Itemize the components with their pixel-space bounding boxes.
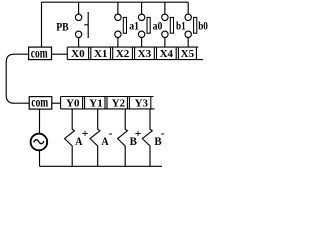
svg-text:PB: PB — [56, 20, 68, 34]
switch b0 — [185, 2, 197, 47]
svg-text:Y0: Y0 — [66, 97, 80, 109]
load B+ (solenoid) — [118, 109, 128, 166]
wire riser from com1 to top bus — [41, 2, 43, 47]
svg-text:-: - — [161, 126, 165, 140]
svg-text:Y3: Y3 — [135, 97, 149, 109]
svg-text:+: + — [135, 126, 142, 140]
svg-text:com: com — [31, 96, 48, 111]
output terminal row Y0-Y3 — [61, 97, 155, 109]
svg-text:X4: X4 — [160, 48, 174, 60]
svg-text:X3: X3 — [138, 48, 152, 60]
svg-text:X1: X1 — [94, 48, 107, 60]
switch a1 — [115, 2, 127, 47]
svg-text:Y1: Y1 — [89, 97, 102, 109]
svg-text:a0: a0 — [153, 19, 163, 33]
pushbutton PB contact circles — [75, 2, 81, 47]
svg-text:X5: X5 — [181, 48, 195, 60]
pushbutton PB plunger — [84, 12, 88, 38]
wire top bus — [42, 1, 189, 3]
terminal box com2 — [29, 97, 52, 110]
svg-text:a1: a1 — [129, 19, 139, 33]
load A+ (solenoid) — [65, 109, 75, 166]
AC source — [31, 134, 48, 151]
load B- (solenoid) — [142, 109, 152, 166]
svg-text:X0: X0 — [71, 48, 85, 60]
svg-text:Y2: Y2 — [112, 97, 126, 109]
svg-text:X2: X2 — [116, 48, 130, 60]
wire AC source to bottom bus — [39, 150, 41, 167]
wire com1 to X0 — [52, 53, 68, 55]
wire bottom bus — [40, 165, 163, 167]
wire left rail com1 to com2 — [6, 54, 29, 103]
switch b1 — [162, 2, 174, 47]
svg-text:-: - — [109, 126, 113, 140]
switch a0 — [138, 2, 150, 47]
AC sine symbol — [34, 140, 44, 144]
svg-text:b0: b0 — [198, 19, 208, 33]
svg-text:+: + — [82, 126, 89, 140]
svg-text:com: com — [31, 46, 48, 61]
wire com2 to Y0 — [52, 102, 61, 104]
svg-text:b1: b1 — [176, 19, 186, 33]
terminal box com1 — [29, 47, 52, 60]
load A- (solenoid) — [90, 109, 100, 166]
input terminal row X0-X5 — [67, 47, 203, 60]
wire com2 down to AC source — [39, 109, 41, 134]
